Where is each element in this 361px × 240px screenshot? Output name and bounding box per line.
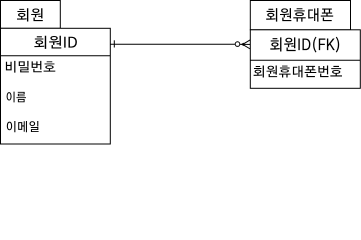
crow's foot top prong <box>243 40 251 45</box>
crow's foot apex dot <box>241 43 244 47</box>
crow's foot middle prong <box>240 43 250 45</box>
attribute 회원휴대폰번호 text <box>254 66 342 78</box>
relationship wire from 회원 to 회원휴대폰 <box>110 43 235 45</box>
entity 회원휴대폰 name text <box>266 8 333 22</box>
attribute 이메일 text <box>7 121 39 132</box>
crow's foot bottom prong <box>243 44 251 49</box>
key attribute 회원ID text <box>34 36 77 49</box>
foreign key attribute 회원ID(FK) text <box>270 37 339 53</box>
attribute 이름 text <box>7 92 26 103</box>
entity 회원 body box <box>1 28 111 144</box>
entity 회원휴대폰 key separator line <box>250 59 360 61</box>
entity 회원휴대폰 body box <box>250 30 360 89</box>
entity 회원휴대폰 (Member Mobile) name tab box <box>250 1 350 30</box>
optionality circle at 회원휴대폰 end <box>235 42 240 47</box>
entity 회원 key separator line <box>1 55 111 57</box>
attribute 비밀번호 text <box>6 61 55 73</box>
cardinality one tick at 회원 end <box>113 40 115 47</box>
entity 회원 name text <box>17 8 43 21</box>
entity 회원 (Member) name tab box <box>1 1 61 29</box>
